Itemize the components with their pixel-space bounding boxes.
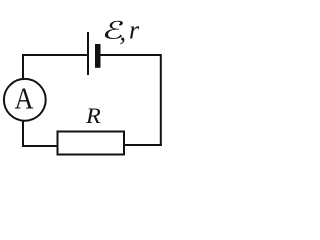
wire left vertical upper (corner to ammeter) (22, 54, 24, 79)
wire battery to top-right corner (100, 54, 162, 56)
wire left vertical lower (ammeter to bottom wire) (22, 121, 24, 147)
svg-text:R: R (85, 104, 101, 129)
svg-text:A: A (14, 82, 33, 116)
resistor R body (58, 132, 125, 155)
ammeter A1 body (4, 79, 46, 121)
battery cell short plate (95, 44, 101, 68)
wire bottom-left horizontal (ammeter leg to resistor) (22, 145, 59, 147)
wire bottom-right horizontal (resistor to right corner) (124, 144, 162, 146)
battery cell long plate (87, 32, 89, 75)
battery EMF label script-E (104, 21, 125, 39)
svg-text:r: r (129, 16, 140, 45)
svg-text:,: , (120, 17, 127, 46)
wire top-left horizontal (corner to battery) (22, 54, 88, 56)
wire right vertical (160, 54, 162, 146)
